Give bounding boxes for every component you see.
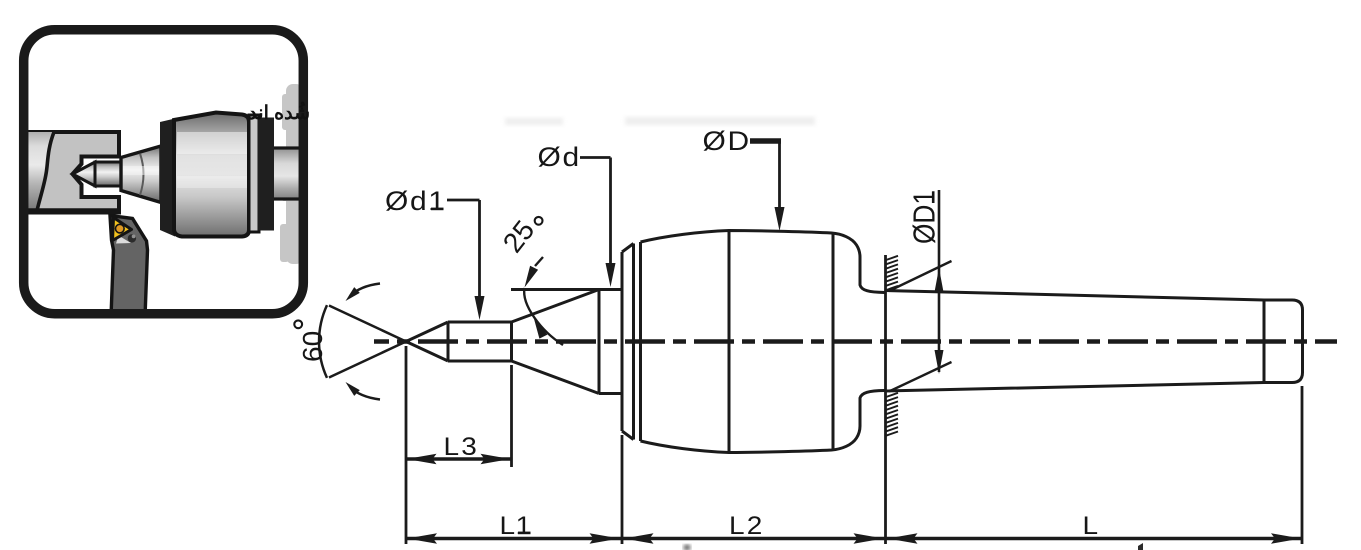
rear shaft <box>260 148 302 199</box>
leader: Od1 <box>447 200 480 300</box>
leader: OD (thick horizontal) <box>750 138 781 144</box>
faint smudges top <box>505 118 563 125</box>
big cone <box>121 146 161 203</box>
frame fill <box>24 30 304 314</box>
svg-text:ØD1: ØD1 <box>907 190 942 244</box>
bottom cut-off marks <box>684 545 690 550</box>
arrows: swallow-tail style; length 30, half-width 5 <box>407 454 1302 544</box>
L3 arrows <box>407 454 437 464</box>
live center: point cone <box>73 162 96 186</box>
60 deg annotation <box>319 284 406 400</box>
svg-text:Ød: Ød <box>538 142 581 172</box>
degree signs drawn as circles <box>294 320 302 328</box>
svg-text:L: L <box>1083 511 1099 539</box>
bottom row arrows <box>407 533 437 543</box>
svg-text:ØD: ØD <box>703 126 751 156</box>
tailstock quill silhouette <box>280 84 303 264</box>
workpiece <box>22 132 119 213</box>
hatching lower <box>886 393 898 436</box>
body highlight bands <box>177 132 247 154</box>
grip ring (dark) <box>160 119 175 237</box>
svg-text:شُده‌ اند: شُده‌ اند <box>248 102 310 124</box>
rear dark band <box>258 118 274 231</box>
centerline <box>374 339 1337 344</box>
svg-text:L1: L1 <box>500 511 532 539</box>
extension lines for dims <box>406 346 1302 544</box>
hatching upper <box>886 256 898 290</box>
morse taper shank <box>886 291 1265 392</box>
25deg taper <box>512 290 600 394</box>
flange / extension line <box>884 255 887 544</box>
frame stroke <box>24 30 304 314</box>
pilot cylinder <box>95 162 121 186</box>
svg-text:60: 60 <box>297 331 328 362</box>
OD1 annotation <box>889 190 952 392</box>
tip cone <box>406 322 448 361</box>
body outline <box>639 242 642 441</box>
d1 cylinder <box>448 322 512 361</box>
leader: Od <box>580 158 611 267</box>
25 deg annotation <box>535 257 543 266</box>
foot serifs for digit 1 <box>431 192 935 535</box>
front rim <box>622 244 634 440</box>
svg-text:L3: L3 <box>444 432 480 460</box>
tang <box>1263 300 1266 383</box>
rear light band <box>249 115 259 232</box>
chuck body <box>174 113 249 237</box>
svg-text:L2: L2 <box>729 511 765 539</box>
cutting tool <box>110 216 148 318</box>
svg-text:Ød1: Ød1 <box>385 186 447 216</box>
d cylinder + angle ref line <box>511 290 622 394</box>
dimension lines <box>406 459 1302 539</box>
